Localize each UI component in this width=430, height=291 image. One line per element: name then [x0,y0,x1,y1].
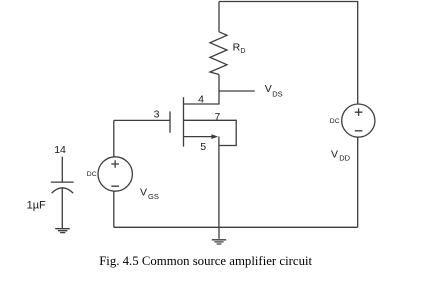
svg-text:3: 3 [154,109,160,121]
svg-text:14: 14 [54,144,66,156]
svg-text:DC: DC [87,171,97,178]
svg-text:DS: DS [272,90,282,99]
svg-text:D: D [240,48,245,55]
svg-text:7: 7 [215,112,221,123]
svg-text:4: 4 [198,94,204,106]
svg-text:1µF: 1µF [27,199,46,211]
svg-text:5: 5 [200,141,206,153]
svg-text:Fig. 4.5 Common source amplifi: Fig. 4.5 Common source amplifier circuit [99,254,312,268]
svg-text:V: V [140,187,147,199]
svg-text:R: R [233,42,241,54]
svg-text:DD: DD [339,154,350,163]
svg-text:GS: GS [148,192,159,201]
svg-text:V: V [265,83,272,95]
svg-text:V: V [331,148,338,160]
svg-text:DC: DC [330,118,340,125]
